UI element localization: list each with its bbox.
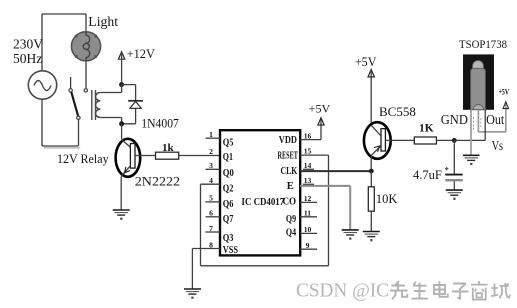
svg-text:+12V: +12V [127,46,156,61]
pin 9 stub and number [300,241,317,250]
svg-text:Q3: Q3 [223,233,234,244]
svg-text:1: 1 [209,130,213,139]
wire Q1 emitter to ground [120,176,122,209]
svg-text:1k: 1k [162,142,175,154]
wire capacitor to ground [453,181,455,190]
pin 16 stub and number [300,131,321,140]
svg-text:230V: 230V [13,36,43,51]
node D junction [452,138,457,143]
resistor R2 1K [414,137,436,144]
svg-text:9: 9 [306,241,310,250]
svg-text:+5V: +5V [355,55,377,69]
power arrow +5V (TSOP) [503,102,509,109]
diode D1 1N4007 [122,85,143,124]
wire +5V to Q2 emitter [370,70,372,122]
pin 10 stub and number [300,225,317,234]
svg-text:Out: Out [486,113,504,128]
lamp Light [71,32,100,61]
wire mains loop top [42,14,86,146]
svg-text:12V Relay: 12V Relay [57,151,109,166]
svg-text:10: 10 [304,225,312,234]
wire coil verticals [121,85,123,124]
svg-text:+5V: +5V [309,102,331,116]
wire pin 16 to +5V [320,118,322,139]
svg-text:+5V: +5V [499,87,510,97]
TSOP lead Vs to +5V [478,103,505,132]
wire node B to Q1 collector [121,124,123,139]
node C junction [369,169,374,174]
wire node C to 10K [370,171,372,187]
relay contact SW blade [71,92,78,116]
svg-text:4.7uF: 4.7uF [413,168,442,182]
ground below TSOP GND [463,155,480,165]
capacitor C1 4.7uF polarity plus [445,167,448,170]
TSOP lead GND to ground [470,110,472,155]
pin 12 stub and number [300,194,317,203]
power arrow +5V (VDD) [318,118,324,125]
node B junction [119,121,124,126]
resistor R1 1k [156,152,179,159]
relay RL1 coil [95,93,121,118]
AC source V1 230V 50Hz [28,71,56,99]
svg-text:VSS: VSS [223,245,238,256]
svg-text:Q2: Q2 [223,183,234,194]
watermark glyph shang [471,281,488,300]
wire pin 14 CLK to junction [300,170,371,172]
svg-text:VDD: VDD [279,135,298,146]
ground below Q1 [113,210,130,220]
relay contact SW pole terminal [77,116,80,119]
wire loop bottom shadow [44,147,80,149]
wire node D to TSOP out lead [454,139,485,141]
watermark glyph zi [452,284,469,299]
svg-text:Q7: Q7 [223,214,234,225]
wire Q1 base to resistor 1k [135,155,156,157]
wire Q2 collector to node C [370,156,372,171]
svg-text:12: 12 [304,194,312,203]
svg-text:Light: Light [88,14,118,29]
svg-text:2N2222: 2N2222 [135,174,180,189]
TSOP pin mark 1 [472,117,474,130]
transistor Q2 BC558 [364,122,391,159]
pin 3 stub [206,161,221,170]
svg-text:15: 15 [304,146,312,155]
power arrow +12V [118,52,124,59]
svg-text:Q1: Q1 [223,152,233,163]
svg-text:RESET: RESET [278,151,298,162]
pin 7 stub [206,224,221,233]
svg-text:7: 7 [209,224,213,233]
svg-text:E: E [287,181,294,192]
ground below capacitor [446,190,463,200]
svg-text:Vs: Vs [492,138,504,153]
pin 11 stub and number [300,209,317,218]
pin 5 stub [206,194,221,203]
wire node D to capacitor [453,140,455,173]
svg-text:Q0: Q0 [223,168,234,179]
pin 13 stub and number [303,176,314,185]
wire pin 13 E to ground [300,186,350,230]
TSOP pin mark 2 [480,118,482,127]
wire lamp to switch contact [85,61,87,89]
wire Q2 pin4 to RESET pin15 loop [201,155,329,266]
wire 1k to IC pin 2 [179,155,220,157]
transistor Q1 2N2222 [116,139,141,177]
svg-text:5: 5 [209,194,213,203]
svg-text:TSOP1738: TSOP1738 [459,37,507,51]
svg-text:1N4007: 1N4007 [141,117,179,131]
wire Q2 base to 1K [385,139,414,141]
svg-text:GND: GND [441,113,468,128]
svg-text:Q9: Q9 [286,214,296,225]
ground below pin 8 [184,289,201,299]
wire +12V to node A [121,53,123,85]
capacitor C1 4.7uF [445,175,463,181]
svg-text:BC558: BC558 [379,104,416,119]
IR receiver U2 TSOP1738 [463,54,494,109]
pin 15 stub and number [300,146,329,155]
svg-text:CSDN @IC: CSDN @IC [296,280,389,302]
svg-text:14: 14 [304,161,312,170]
pin 14 stub and number [303,161,314,170]
relay contact SW terminals [69,89,88,92]
relay contact SW (NC stub) [70,77,72,89]
wire pin 8 VSS to ground [192,249,220,289]
svg-text:CO: CO [283,197,297,208]
svg-text:2: 2 [209,147,213,156]
wire 10K to ground [370,211,372,231]
wire 1K to node D [436,139,454,141]
svg-text:3: 3 [209,161,213,170]
label 230V 50Hz [13,36,43,66]
node A junction [119,82,124,87]
watermark glyph sheng [412,282,429,299]
wire switch pole down [78,119,80,146]
svg-text:13: 13 [304,176,312,185]
pin 1 stub [206,130,221,139]
IC U1 CD4017 body [220,130,300,255]
TSOP lead Out down to wire [484,110,486,141]
svg-text:Q5: Q5 [223,138,234,149]
pin 6 stub [206,209,221,218]
ground below 10K [363,232,380,242]
svg-text:IC CD4017: IC CD4017 [242,197,285,208]
resistor R3 10K [368,187,374,211]
svg-text:50Hz: 50Hz [13,51,42,66]
ground below pin 13 wire [342,230,359,240]
watermark glyph dian [434,281,448,297]
watermark glyph xian [390,281,408,299]
svg-text:6: 6 [209,209,213,218]
svg-text:16: 16 [304,131,312,140]
svg-text:11: 11 [304,209,311,218]
svg-text:CLK: CLK [281,166,298,177]
svg-text:Q6: Q6 [223,199,234,210]
svg-text:Q4: Q4 [286,228,297,239]
power arrow +5V (BC558) [368,70,374,77]
relay RL1 core [92,90,96,120]
svg-text:10K: 10K [376,192,398,206]
watermark glyph cheng [491,283,510,298]
svg-text:1K: 1K [419,123,434,135]
